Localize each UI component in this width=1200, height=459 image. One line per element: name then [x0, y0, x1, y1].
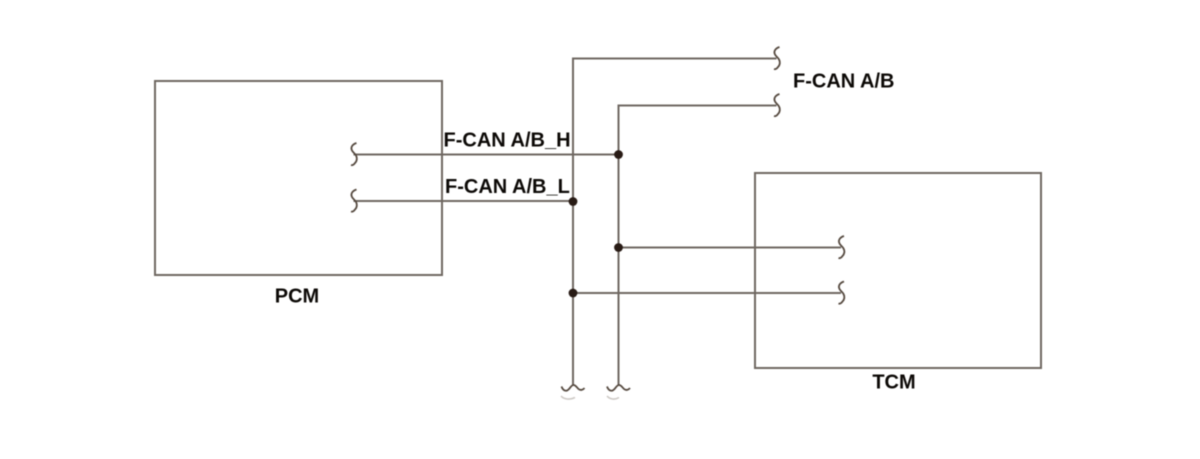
break symbol at TCM end of upper branch — [839, 236, 845, 258]
svg-text:F-CAN A/B: F-CAN A/B — [793, 71, 894, 93]
junction dot TCM upper on V2 — [614, 243, 623, 252]
faint ghost mark under V2 break — [607, 396, 619, 399]
junction dot H on V2 — [614, 150, 623, 159]
break symbol at bottom of V2 — [607, 385, 630, 391]
svg-text:F-CAN A/B_L: F-CAN A/B_L — [445, 176, 570, 198]
wire TCM branch upper — [619, 247, 842, 249]
box TCM — [755, 173, 1041, 368]
break symbol at right end of F-CAN A/B wire 2 — [774, 94, 780, 116]
break symbol at PCM end of F-CAN A/B_L — [351, 190, 357, 212]
break symbol at TCM end of lower branch — [839, 282, 845, 304]
wire F-CAN A/B_H — [354, 154, 619, 156]
svg-text:F-CAN A/B_H: F-CAN A/B_H — [444, 130, 571, 152]
wire bus vertical V1 — [573, 59, 777, 386]
svg-text:PCM: PCM — [275, 286, 319, 308]
wire F-CAN A/B_L — [354, 200, 574, 202]
break symbol at top-right end of F-CAN A/B wire 1 — [774, 47, 780, 69]
junction dot TCM lower on V1 — [569, 289, 578, 298]
wire TCM branch lower — [573, 292, 841, 294]
faint ghost mark under V1 break — [561, 396, 575, 399]
box PCM — [155, 81, 442, 275]
svg-text:TCM: TCM — [872, 372, 915, 394]
break symbol at bottom of V1 — [562, 385, 585, 391]
break symbol at PCM end of F-CAN A/B_H — [351, 143, 357, 165]
wire bus vertical V2 — [619, 106, 777, 386]
junction dot L on V1 — [569, 197, 578, 206]
